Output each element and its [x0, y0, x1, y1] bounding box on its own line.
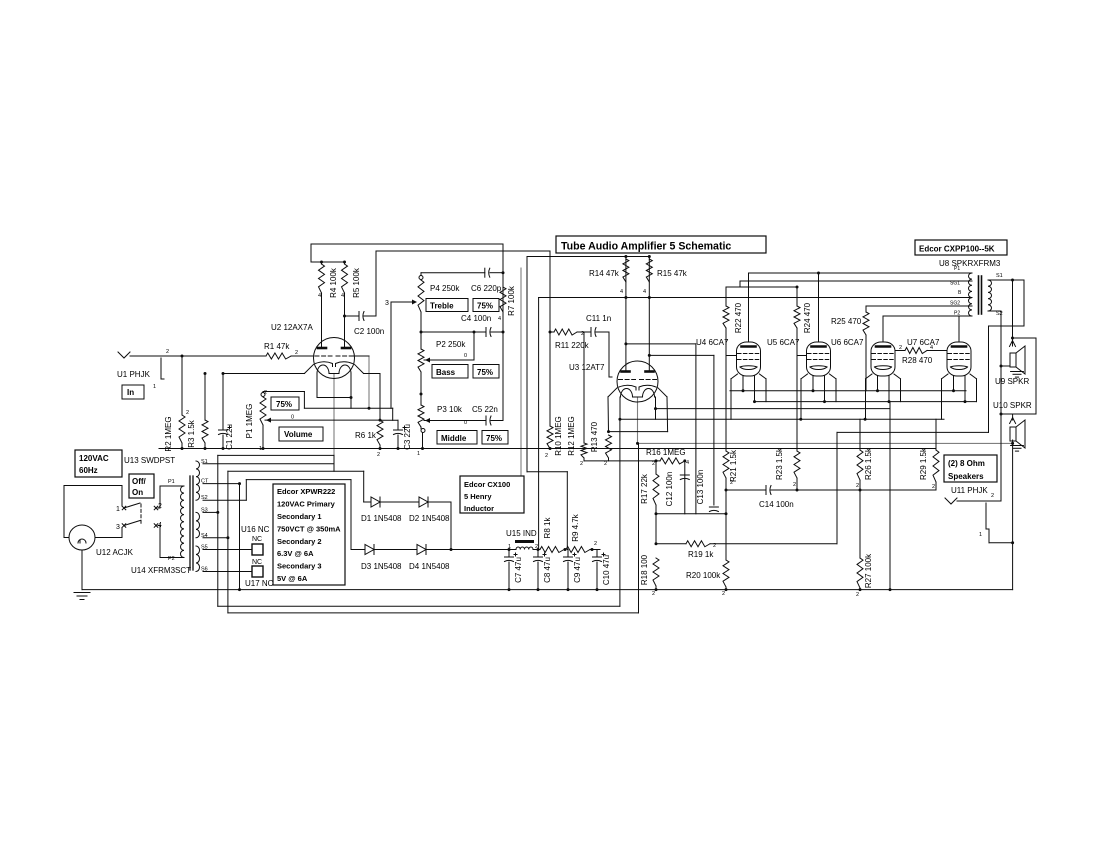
- svg-text:C3 22u: C3 22u: [403, 424, 412, 450]
- svg-text:R12 1MEG: R12 1MEG: [567, 416, 576, 456]
- svg-text:R27 100k: R27 100k: [864, 553, 873, 588]
- svg-text:Tube Audio Amplifier 5 Schemat: Tube Audio Amplifier 5 Schematic: [561, 241, 731, 253]
- svg-text:R10 1MEG: R10 1MEG: [554, 416, 563, 456]
- svg-text:D4 1N5408: D4 1N5408: [409, 562, 450, 571]
- svg-text:1: 1: [153, 384, 156, 390]
- svg-text:Off/: Off/: [132, 477, 147, 486]
- svg-text:60Hz: 60Hz: [79, 466, 98, 475]
- svg-text:R1 47k: R1 47k: [264, 342, 290, 351]
- svg-text:Edcor CXPP100--5K: Edcor CXPP100--5K: [919, 245, 995, 254]
- svg-text:U4 6CA7: U4 6CA7: [696, 338, 729, 347]
- svg-text:R24 470: R24 470: [803, 302, 812, 333]
- svg-text:2: 2: [856, 592, 859, 598]
- svg-text:1: 1: [116, 506, 120, 513]
- svg-text:R5 100k: R5 100k: [352, 267, 361, 298]
- svg-text:NC: NC: [252, 536, 262, 543]
- svg-text:S6: S6: [201, 567, 208, 573]
- svg-text:120VAC: 120VAC: [79, 454, 109, 463]
- svg-text:S1: S1: [996, 273, 1003, 279]
- svg-text:2: 2: [899, 345, 902, 351]
- svg-text:R7 100k: R7 100k: [507, 285, 516, 316]
- svg-text:R18 100: R18 100: [640, 554, 649, 585]
- svg-text:NC: NC: [252, 559, 262, 566]
- svg-text:C13 100n: C13 100n: [696, 470, 705, 505]
- svg-text:2: 2: [186, 410, 189, 416]
- svg-text:R23 1.5k: R23 1.5k: [775, 447, 784, 480]
- svg-text:R28 470: R28 470: [902, 356, 933, 365]
- svg-text:C14 100n: C14 100n: [759, 500, 794, 509]
- svg-text:C7 47u: C7 47u: [514, 557, 523, 583]
- svg-text:CT: CT: [201, 479, 209, 485]
- svg-text:U11 PHJK: U11 PHJK: [951, 486, 988, 495]
- svg-text:2: 2: [377, 452, 380, 458]
- svg-text:R4 100k: R4 100k: [329, 267, 338, 298]
- svg-text:0: 0: [291, 415, 294, 421]
- svg-text:C4 100n: C4 100n: [461, 314, 491, 323]
- svg-text:75%: 75%: [276, 400, 292, 409]
- svg-text:2: 2: [264, 390, 267, 396]
- svg-text:U8 SPKRXFRM3: U8 SPKRXFRM3: [939, 259, 1001, 268]
- svg-text:On: On: [132, 488, 143, 497]
- svg-text:U13 SWDPST: U13 SWDPST: [124, 456, 175, 465]
- svg-text:R29 1.5k: R29 1.5k: [919, 447, 928, 480]
- svg-text:4: 4: [620, 289, 623, 295]
- svg-text:75%: 75%: [486, 434, 502, 443]
- svg-text:C10 47u: C10 47u: [602, 555, 611, 585]
- svg-text:U6 6CA7: U6 6CA7: [831, 338, 864, 347]
- svg-text:2: 2: [545, 453, 548, 459]
- svg-text:U7 6CA7: U7 6CA7: [907, 338, 940, 347]
- svg-text:2: 2: [713, 543, 716, 549]
- svg-text:C12 100n: C12 100n: [665, 472, 674, 507]
- svg-text:U17 NC: U17 NC: [245, 579, 274, 588]
- svg-text:Secondary 1: Secondary 1: [277, 512, 322, 521]
- svg-text:120VAC Primary: 120VAC Primary: [277, 500, 336, 509]
- svg-text:U2 12AX7A: U2 12AX7A: [271, 323, 313, 332]
- svg-text:5V @ 6A: 5V @ 6A: [277, 574, 308, 583]
- svg-text:R11 220k: R11 220k: [555, 341, 590, 350]
- svg-text:P1: P1: [168, 479, 175, 485]
- svg-text:2: 2: [856, 483, 859, 489]
- svg-text:S1: S1: [201, 459, 208, 465]
- svg-text:(2) 8 Ohm: (2) 8 Ohm: [948, 459, 985, 468]
- svg-text:Secondary 3: Secondary 3: [277, 562, 322, 571]
- svg-text:C8 47u: C8 47u: [543, 557, 552, 583]
- svg-text:R3 1.5k: R3 1.5k: [187, 419, 196, 448]
- svg-text:750VCT @ 350mA: 750VCT @ 350mA: [277, 524, 341, 533]
- svg-text:2: 2: [580, 461, 583, 467]
- svg-text:4: 4: [318, 293, 321, 299]
- svg-text:4: 4: [686, 460, 689, 466]
- svg-text:P1: P1: [954, 266, 960, 272]
- svg-text:D3 1N5408: D3 1N5408: [361, 562, 402, 571]
- svg-text:R16 1MEG: R16 1MEG: [646, 448, 686, 457]
- svg-text:75%: 75%: [477, 302, 493, 311]
- svg-text:C6 220p: C6 220p: [471, 284, 502, 293]
- svg-text:R9 4.7k: R9 4.7k: [571, 513, 580, 542]
- svg-text:2: 2: [652, 461, 655, 467]
- svg-text:1: 1: [508, 544, 511, 550]
- svg-text:3: 3: [116, 524, 120, 531]
- svg-text:R14 47k: R14 47k: [589, 269, 620, 278]
- svg-text:U3 12AT7: U3 12AT7: [569, 363, 605, 372]
- svg-text:R17 22k: R17 22k: [640, 473, 649, 504]
- svg-text:U14 XFRM3SCT: U14 XFRM3SCT: [131, 566, 191, 575]
- svg-text:P2: P2: [168, 556, 175, 562]
- svg-text:R8 1k: R8 1k: [543, 517, 552, 539]
- svg-text:Bass: Bass: [436, 368, 456, 377]
- svg-text:C2 100n: C2 100n: [354, 327, 384, 336]
- svg-text:R21 1.5k: R21 1.5k: [729, 449, 738, 482]
- svg-text:U16 NC: U16 NC: [241, 525, 270, 534]
- svg-text:Secondary 2: Secondary 2: [277, 537, 322, 546]
- svg-text:Edcor CX100: Edcor CX100: [464, 480, 510, 489]
- svg-text:5 Henry: 5 Henry: [464, 492, 492, 501]
- svg-text:2: 2: [722, 591, 725, 597]
- svg-text:R20 100k: R20 100k: [686, 571, 721, 580]
- svg-text:U15 IND: U15 IND: [506, 529, 537, 538]
- svg-text:2: 2: [581, 331, 584, 337]
- svg-text:R13 470: R13 470: [590, 421, 599, 452]
- svg-text:P2: P2: [954, 311, 960, 317]
- svg-text:D2 1N5408: D2 1N5408: [409, 514, 450, 523]
- svg-text:0: 0: [464, 353, 467, 359]
- svg-text:U9 SPKR: U9 SPKR: [995, 377, 1029, 386]
- svg-text:4: 4: [643, 289, 646, 295]
- svg-text:4: 4: [158, 522, 162, 529]
- svg-text:C9 47u: C9 47u: [573, 557, 582, 583]
- svg-text:0: 0: [464, 420, 467, 426]
- svg-text:Middle: Middle: [441, 434, 467, 443]
- svg-text:Edcor XPWR222: Edcor XPWR222: [277, 487, 335, 496]
- svg-text:P3 10k: P3 10k: [437, 405, 463, 414]
- svg-text:S4: S4: [201, 533, 208, 539]
- svg-text:Treble: Treble: [430, 302, 454, 311]
- svg-text:Volume: Volume: [284, 430, 313, 439]
- svg-text:R2 1MEG: R2 1MEG: [164, 416, 173, 451]
- svg-text:1: 1: [259, 446, 262, 452]
- svg-text:P1 1MEG: P1 1MEG: [245, 404, 254, 439]
- svg-text:2: 2: [535, 544, 538, 550]
- svg-text:R15 47k: R15 47k: [657, 269, 688, 278]
- svg-text:R6 1k: R6 1k: [355, 431, 377, 440]
- svg-text:2: 2: [932, 484, 935, 490]
- svg-text:P2 250k: P2 250k: [436, 340, 466, 349]
- svg-text:4: 4: [498, 316, 501, 322]
- svg-text:2: 2: [604, 461, 607, 467]
- svg-text:R25 470: R25 470: [831, 317, 862, 326]
- svg-text:In: In: [127, 388, 134, 397]
- svg-text:2: 2: [166, 349, 169, 355]
- svg-text:C11 1n: C11 1n: [586, 314, 611, 323]
- svg-text:1: 1: [979, 532, 982, 538]
- svg-text:R22 470: R22 470: [734, 302, 743, 333]
- svg-text:P4 250k: P4 250k: [430, 284, 460, 293]
- svg-text:Speakers: Speakers: [948, 472, 984, 481]
- svg-text:U10 SPKR: U10 SPKR: [993, 401, 1032, 410]
- svg-text:SG2: SG2: [950, 301, 960, 307]
- svg-text:4: 4: [341, 293, 344, 299]
- svg-text:6.3V @ 6A: 6.3V @ 6A: [277, 549, 314, 558]
- svg-text:2: 2: [652, 591, 655, 597]
- svg-text:S3: S3: [201, 507, 208, 513]
- svg-text:1: 1: [417, 451, 420, 457]
- svg-text:D1 1N5408: D1 1N5408: [361, 514, 402, 523]
- svg-text:2: 2: [730, 480, 733, 486]
- svg-text:2: 2: [594, 541, 597, 547]
- svg-text:2: 2: [158, 503, 162, 510]
- svg-text:75%: 75%: [477, 368, 493, 377]
- svg-text:S2: S2: [201, 495, 208, 501]
- svg-text:4: 4: [930, 345, 933, 351]
- svg-text:R19 1k: R19 1k: [688, 550, 714, 559]
- svg-text:2: 2: [991, 493, 994, 499]
- svg-text:C5 22n: C5 22n: [472, 405, 498, 414]
- svg-text:U12 ACJK: U12 ACJK: [96, 548, 134, 557]
- svg-text:S2: S2: [996, 311, 1003, 317]
- svg-text:U5 6CA7: U5 6CA7: [767, 338, 800, 347]
- svg-text:2: 2: [295, 350, 298, 356]
- svg-text:C1 22u: C1 22u: [225, 424, 234, 450]
- svg-text:3: 3: [385, 300, 389, 307]
- svg-text:Inductor: Inductor: [464, 504, 494, 513]
- svg-text:SG1: SG1: [950, 281, 960, 287]
- svg-text:2: 2: [793, 482, 796, 488]
- svg-text:U1 PHJK: U1 PHJK: [117, 370, 151, 379]
- svg-text:S5: S5: [201, 545, 208, 551]
- svg-text:R26 1.5k: R26 1.5k: [864, 447, 873, 480]
